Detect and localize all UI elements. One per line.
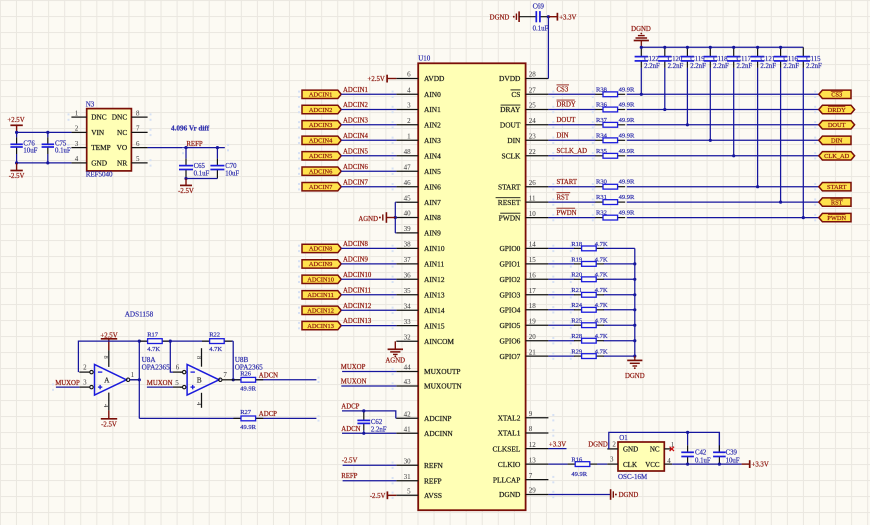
svg-text:MUXOP: MUXOP: [341, 364, 366, 371]
svg-text:5: 5: [407, 488, 411, 496]
svg-text:DGND: DGND: [588, 442, 608, 449]
svg-text:DGND: DGND: [490, 14, 510, 21]
svg-text:8: 8: [195, 356, 202, 359]
svg-text:C122: C122: [644, 56, 659, 63]
svg-text:C69: C69: [533, 4, 545, 11]
svg-text:GPIO7: GPIO7: [499, 352, 520, 361]
svg-text:11: 11: [529, 194, 536, 202]
svg-text:7: 7: [223, 371, 227, 379]
svg-text:ADCIN9: ADCIN9: [343, 257, 369, 264]
svg-text:ADCIN13: ADCIN13: [343, 318, 372, 325]
svg-text:DGND: DGND: [499, 490, 521, 499]
svg-text:4.7K: 4.7K: [595, 318, 608, 325]
svg-text:R21: R21: [571, 287, 582, 294]
svg-text:C118: C118: [713, 56, 728, 63]
svg-text:1: 1: [407, 133, 411, 141]
svg-text:10uF: 10uF: [726, 457, 740, 464]
svg-text:47: 47: [404, 163, 412, 171]
svg-text:PWDN: PWDN: [827, 215, 846, 222]
svg-text:SCLK: SCLK: [501, 152, 521, 161]
svg-text:ADCIN9: ADCIN9: [309, 261, 332, 268]
svg-text:4.7K: 4.7K: [595, 302, 608, 309]
svg-text:R35: R35: [596, 148, 607, 155]
svg-text:36: 36: [404, 272, 412, 280]
svg-text:24: 24: [529, 117, 537, 125]
svg-text:RESET: RESET: [498, 198, 521, 207]
svg-text:31: 31: [404, 473, 412, 481]
svg-text:OPA2365: OPA2365: [142, 363, 170, 371]
svg-text:ADCIN3: ADCIN3: [343, 117, 369, 124]
svg-text:C115: C115: [806, 56, 821, 63]
svg-text:ADCIN1: ADCIN1: [343, 87, 368, 94]
svg-text:AIN10: AIN10: [424, 244, 445, 253]
svg-text:ADCINP: ADCINP: [424, 414, 452, 423]
svg-text:AIN14: AIN14: [424, 306, 445, 315]
svg-text:NC: NC: [650, 446, 660, 454]
svg-text:C62: C62: [371, 419, 383, 426]
svg-text:49.9R: 49.9R: [619, 210, 635, 217]
svg-text:MUXOUTP: MUXOUTP: [424, 367, 461, 376]
svg-text:41: 41: [404, 426, 412, 434]
svg-text:ADCP: ADCP: [259, 411, 277, 418]
svg-text:CLKSEL: CLKSEL: [492, 444, 520, 453]
svg-text:0.1uF: 0.1uF: [55, 147, 71, 154]
svg-text:ADCIN2: ADCIN2: [343, 102, 369, 109]
svg-text:AVSS: AVSS: [424, 491, 442, 500]
svg-text:10uF: 10uF: [225, 171, 239, 178]
svg-text:6: 6: [176, 364, 180, 372]
svg-text:ADCIN11: ADCIN11: [343, 287, 371, 294]
svg-text:AIN7: AIN7: [424, 198, 441, 207]
svg-text:A: A: [104, 376, 110, 385]
svg-text:4.7K: 4.7K: [595, 256, 608, 263]
svg-text:ADCP: ADCP: [341, 403, 359, 410]
svg-text:32: 32: [404, 334, 412, 342]
svg-text:+3.3V: +3.3V: [549, 441, 566, 448]
svg-text:+3.3V: +3.3V: [559, 15, 576, 22]
svg-text:27: 27: [529, 87, 537, 95]
svg-text:GPIO1: GPIO1: [499, 260, 520, 269]
svg-text:ADCIN1: ADCIN1: [309, 92, 332, 99]
svg-text:MUXON: MUXON: [147, 380, 173, 387]
svg-text:R37: R37: [596, 117, 608, 124]
svg-text:R24: R24: [571, 302, 583, 309]
svg-text:R28: R28: [571, 333, 582, 340]
svg-text:GPIO4: GPIO4: [499, 306, 520, 315]
svg-text:B: B: [197, 376, 202, 385]
svg-text:AIN11: AIN11: [424, 260, 445, 269]
svg-text:0.1uF: 0.1uF: [194, 171, 210, 178]
svg-text:7: 7: [136, 125, 140, 133]
svg-text:ADCIN5: ADCIN5: [343, 148, 369, 155]
svg-text:REFP: REFP: [424, 476, 442, 485]
svg-text:DIN: DIN: [507, 136, 521, 145]
svg-text:3: 3: [407, 102, 411, 110]
svg-text:ADCIN12: ADCIN12: [343, 303, 372, 310]
svg-text:AIN8: AIN8: [424, 213, 441, 222]
svg-text:AGND: AGND: [385, 358, 405, 365]
svg-text:R26: R26: [240, 370, 252, 377]
svg-text:DRDY: DRDY: [828, 107, 846, 114]
svg-text:PLLCAP: PLLCAP: [493, 475, 521, 484]
svg-text:C116: C116: [783, 56, 798, 63]
svg-text:+2.5V: +2.5V: [368, 76, 385, 83]
svg-text:2.2nF: 2.2nF: [644, 63, 660, 70]
svg-text:REFP: REFP: [341, 473, 357, 480]
svg-text:8: 8: [102, 356, 109, 359]
svg-text:ADCIN5: ADCIN5: [309, 153, 332, 160]
svg-text:35: 35: [404, 287, 412, 295]
svg-text:R29: R29: [571, 349, 582, 356]
svg-text:TEMP: TEMP: [91, 143, 110, 152]
svg-text:C120: C120: [668, 56, 683, 63]
svg-text:4.7K: 4.7K: [147, 346, 160, 353]
svg-text:ADCIN4: ADCIN4: [309, 138, 333, 145]
svg-text:MUXOUTN: MUXOUTN: [424, 382, 462, 391]
svg-text:4.096 Vr diff: 4.096 Vr diff: [171, 124, 210, 132]
svg-text:2.2nF: 2.2nF: [760, 63, 776, 70]
svg-text:DGND: DGND: [631, 26, 651, 33]
svg-text:R17: R17: [147, 332, 159, 339]
svg-text:+3.3V: +3.3V: [752, 462, 769, 469]
svg-text:MUXON: MUXON: [341, 379, 367, 386]
svg-text:CS: CS: [511, 90, 520, 99]
svg-text:10uF: 10uF: [23, 147, 37, 154]
svg-text:2: 2: [83, 364, 87, 372]
svg-text:PWDN: PWDN: [499, 213, 521, 222]
svg-text:4.7K: 4.7K: [595, 241, 608, 248]
svg-text:DOUT: DOUT: [828, 122, 846, 129]
svg-text:REFN: REFN: [424, 461, 444, 470]
svg-text:C117: C117: [737, 56, 752, 63]
svg-text:R16: R16: [571, 456, 583, 463]
svg-text:19: 19: [529, 317, 537, 325]
svg-text:49.9R: 49.9R: [619, 102, 635, 109]
svg-text:ADCIN2: ADCIN2: [309, 107, 332, 114]
svg-text:49.9R: 49.9R: [619, 148, 635, 155]
svg-text:ADCIN10: ADCIN10: [343, 272, 372, 279]
svg-text:VO: VO: [117, 143, 128, 152]
svg-text:DRAY: DRAY: [500, 105, 521, 114]
svg-text:34: 34: [404, 303, 412, 311]
svg-text:AIN13: AIN13: [424, 291, 445, 300]
svg-text:DRDY: DRDY: [557, 102, 576, 109]
svg-text:N3: N3: [86, 101, 95, 109]
svg-text:R19: R19: [571, 256, 582, 263]
svg-text:30: 30: [404, 457, 412, 465]
svg-text:AIN3: AIN3: [424, 136, 441, 145]
svg-text:2: 2: [612, 441, 616, 449]
svg-text:R31: R31: [596, 194, 607, 201]
svg-text:R36: R36: [596, 102, 608, 109]
svg-text:ADCIN11: ADCIN11: [307, 292, 333, 299]
svg-text:28: 28: [529, 71, 537, 79]
svg-text:9: 9: [529, 410, 533, 418]
svg-text:6: 6: [407, 71, 411, 79]
svg-text:GPIO5: GPIO5: [499, 321, 520, 330]
svg-text:2.2nF: 2.2nF: [783, 63, 799, 70]
svg-text:AIN12: AIN12: [424, 275, 445, 284]
svg-text:DGND: DGND: [625, 373, 645, 380]
svg-text:8: 8: [529, 425, 533, 433]
svg-text:44: 44: [404, 364, 412, 372]
svg-text:21: 21: [529, 348, 537, 356]
svg-text:3: 3: [83, 379, 87, 387]
svg-text:2.2nF: 2.2nF: [690, 63, 706, 70]
svg-text:R30: R30: [596, 179, 607, 186]
svg-text:49.9R: 49.9R: [571, 471, 587, 478]
svg-text:R20: R20: [571, 272, 582, 279]
svg-text:0.1uF: 0.1uF: [533, 25, 549, 32]
svg-text:13: 13: [529, 456, 537, 464]
svg-text:MUXOP: MUXOP: [55, 380, 80, 387]
svg-text:NC: NC: [117, 128, 127, 137]
svg-text:2.2nF: 2.2nF: [806, 63, 822, 70]
svg-text:0.1uF: 0.1uF: [695, 457, 711, 464]
svg-text:C39: C39: [726, 450, 738, 457]
svg-text:AINCOM: AINCOM: [424, 337, 454, 346]
svg-text:VCC: VCC: [645, 461, 660, 469]
svg-text:38: 38: [404, 241, 412, 249]
svg-text:C65: C65: [194, 163, 206, 170]
svg-text:CS3: CS3: [831, 92, 842, 99]
svg-text:ADCIN8: ADCIN8: [343, 241, 369, 248]
svg-text:NR: NR: [117, 159, 127, 168]
svg-text:START: START: [827, 184, 846, 191]
svg-text:20: 20: [529, 333, 537, 341]
svg-text:-2.5V: -2.5V: [370, 493, 386, 500]
svg-text:1: 1: [131, 371, 135, 379]
svg-text:49.9R: 49.9R: [619, 117, 635, 124]
svg-text:18: 18: [529, 302, 537, 310]
svg-text:-2.5V: -2.5V: [178, 188, 194, 195]
svg-text:DOUT: DOUT: [557, 117, 577, 124]
svg-text:ADCIN6: ADCIN6: [309, 169, 332, 176]
svg-text:2.2nF: 2.2nF: [737, 63, 753, 70]
svg-text:R34: R34: [596, 132, 608, 139]
svg-text:CLK_AD: CLK_AD: [824, 153, 850, 160]
svg-text:4: 4: [75, 155, 79, 163]
svg-text:DNC: DNC: [112, 113, 128, 122]
svg-text:15: 15: [529, 256, 537, 264]
svg-text:DOUT: DOUT: [500, 121, 521, 130]
svg-text:3: 3: [610, 456, 614, 464]
svg-text:XTAL2: XTAL2: [498, 413, 521, 422]
svg-text:-2.5V: -2.5V: [342, 458, 358, 465]
svg-text:CLK: CLK: [623, 461, 637, 469]
svg-text:2.2nF: 2.2nF: [713, 63, 729, 70]
svg-text:33: 33: [404, 318, 412, 326]
svg-text:-2.5V: -2.5V: [9, 173, 25, 180]
svg-text:4.7K: 4.7K: [209, 346, 222, 353]
svg-text:ADCIN12: ADCIN12: [307, 308, 334, 315]
svg-text:ADCIN8: ADCIN8: [309, 246, 332, 253]
svg-text:R32: R32: [596, 210, 607, 217]
svg-text:R25: R25: [571, 318, 582, 325]
svg-text:7: 7: [529, 472, 533, 480]
svg-text:ADCINN: ADCINN: [424, 429, 453, 438]
svg-text:12: 12: [529, 441, 537, 449]
svg-text:43: 43: [404, 378, 412, 386]
svg-text:22: 22: [529, 148, 537, 156]
svg-text:49.9R: 49.9R: [619, 86, 635, 93]
svg-text:START: START: [498, 182, 521, 191]
svg-text:START: START: [557, 179, 578, 186]
svg-text:GPIO2: GPIO2: [499, 275, 520, 284]
svg-text:ADS1158: ADS1158: [125, 311, 154, 319]
svg-text:R22: R22: [209, 332, 220, 339]
svg-text:-2.5V: -2.5V: [101, 421, 117, 428]
svg-text:46: 46: [404, 179, 412, 187]
svg-text:26: 26: [529, 179, 537, 187]
svg-text:4: 4: [407, 87, 411, 95]
svg-text:SCLK_AD: SCLK_AD: [557, 148, 588, 155]
svg-text:GND: GND: [91, 159, 107, 168]
svg-text:42: 42: [404, 411, 412, 419]
svg-text:AIN9: AIN9: [424, 229, 441, 238]
svg-text:AIN5: AIN5: [424, 167, 441, 176]
svg-text:U10: U10: [418, 55, 431, 63]
svg-text:5: 5: [136, 155, 140, 163]
svg-text:AIN15: AIN15: [424, 321, 445, 330]
svg-text:ADCIN6: ADCIN6: [343, 164, 369, 171]
svg-text:49.9R: 49.9R: [240, 424, 256, 431]
svg-text:DNC: DNC: [91, 113, 107, 122]
svg-text:49.9R: 49.9R: [619, 179, 635, 186]
svg-text:ADCIN3: ADCIN3: [309, 122, 332, 129]
svg-text:AGND: AGND: [358, 216, 378, 223]
svg-text:4.7K: 4.7K: [595, 272, 608, 279]
svg-text:RST: RST: [831, 199, 843, 206]
svg-text:ADCN: ADCN: [259, 373, 278, 380]
svg-text:3: 3: [75, 140, 79, 148]
svg-text:45: 45: [404, 194, 412, 202]
svg-text:GPIO3: GPIO3: [499, 291, 520, 300]
svg-text:25: 25: [529, 102, 537, 110]
svg-text:4.7K: 4.7K: [595, 287, 608, 294]
svg-text:AIN4: AIN4: [424, 152, 441, 161]
svg-text:AIN0: AIN0: [424, 90, 441, 99]
svg-text:ADCIN13: ADCIN13: [307, 323, 334, 330]
svg-text:C121: C121: [760, 56, 775, 63]
svg-text:DGND: DGND: [619, 492, 639, 499]
svg-text:RST: RST: [557, 194, 570, 201]
svg-text:ADCN: ADCN: [341, 426, 360, 433]
svg-text:14: 14: [529, 241, 537, 249]
svg-text:4.7K: 4.7K: [595, 333, 608, 340]
svg-text:O1: O1: [619, 434, 628, 442]
svg-text:ADCIN4: ADCIN4: [343, 133, 369, 140]
svg-text:49.9R: 49.9R: [619, 132, 635, 139]
svg-text:+2.5V: +2.5V: [7, 117, 24, 124]
svg-text:29: 29: [529, 487, 537, 495]
svg-text:23: 23: [529, 133, 537, 141]
svg-text:R27: R27: [240, 409, 252, 416]
svg-text:PWDN: PWDN: [557, 210, 577, 217]
svg-text:DVDD: DVDD: [499, 74, 521, 83]
svg-text:C70: C70: [225, 163, 237, 170]
svg-text:R18: R18: [571, 241, 582, 248]
svg-text:8: 8: [136, 109, 140, 117]
svg-text:OSC-16M: OSC-16M: [618, 473, 648, 481]
svg-text:REFP: REFP: [186, 141, 202, 148]
svg-text:R38: R38: [596, 86, 607, 93]
svg-text:AIN1: AIN1: [424, 105, 441, 114]
svg-text:C119: C119: [690, 56, 705, 63]
svg-text:2.2nF: 2.2nF: [668, 63, 684, 70]
svg-text:GPIO0: GPIO0: [499, 244, 520, 253]
svg-text:ADCIN7: ADCIN7: [343, 179, 369, 186]
svg-text:ADCIN10: ADCIN10: [307, 277, 334, 284]
svg-text:4.7K: 4.7K: [595, 349, 608, 356]
svg-text:GND: GND: [623, 446, 638, 454]
svg-text:GPIO6: GPIO6: [499, 336, 520, 345]
svg-text:49.9R: 49.9R: [240, 385, 256, 392]
svg-text:5: 5: [175, 379, 179, 387]
svg-text:VIN: VIN: [91, 128, 105, 137]
svg-text:2: 2: [407, 117, 411, 125]
svg-text:C42: C42: [695, 450, 707, 457]
svg-text:AVDD: AVDD: [424, 74, 445, 83]
svg-text:10: 10: [529, 210, 537, 218]
svg-text:1: 1: [75, 109, 79, 117]
svg-text:AIN6: AIN6: [424, 182, 441, 191]
svg-text:40: 40: [404, 210, 412, 218]
svg-text:48: 48: [404, 148, 412, 156]
svg-text:2.2nF: 2.2nF: [371, 426, 387, 433]
svg-text:AIN2: AIN2: [424, 121, 441, 130]
svg-text:4: 4: [667, 457, 671, 465]
svg-text:2: 2: [75, 125, 79, 133]
svg-text:17: 17: [529, 287, 537, 295]
svg-text:16: 16: [529, 272, 537, 280]
svg-text:37: 37: [404, 256, 412, 264]
svg-text:CLKIO: CLKIO: [498, 460, 521, 469]
svg-text:DIN: DIN: [557, 133, 569, 140]
svg-text:REF5040: REF5040: [86, 170, 113, 178]
svg-text:CS3: CS3: [557, 87, 569, 94]
svg-text:DIN: DIN: [831, 138, 843, 145]
svg-text:39: 39: [404, 225, 412, 233]
svg-text:XTAL1: XTAL1: [498, 429, 521, 438]
svg-text:49.9R: 49.9R: [619, 194, 635, 201]
svg-text:ADCIN7: ADCIN7: [309, 184, 333, 191]
svg-text:6: 6: [136, 140, 140, 148]
